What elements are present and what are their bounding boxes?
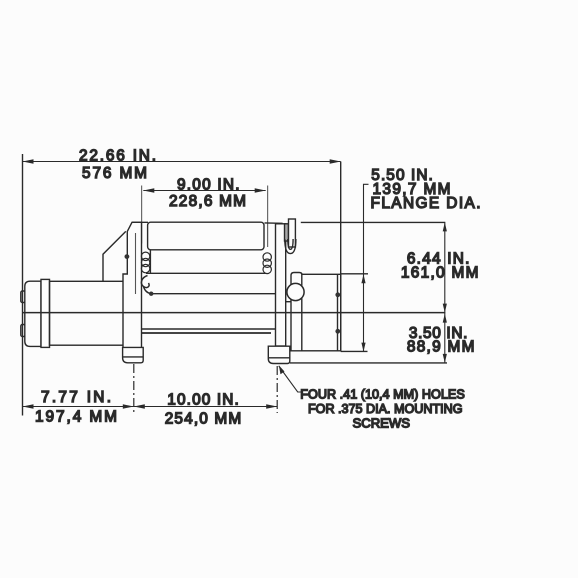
left flange inner edge [149, 250, 151, 273]
svg-text:9.00 IN.: 9.00 IN. [177, 177, 240, 194]
arrowhead up flange top [361, 274, 365, 283]
arrowhead down 3.50 [443, 354, 447, 363]
lower tie bar top line [142, 328, 278, 330]
motor gusset strap [103, 231, 126, 281]
bottom dimension line 7.77 and 10.00 [23, 406, 278, 408]
bolt dot left plate [125, 254, 130, 259]
arrowhead up 3.50 [443, 314, 447, 323]
motor collar ring [41, 279, 50, 347]
arrowhead left 9.00 [143, 188, 154, 192]
svg-text:576 MM: 576 MM [82, 165, 147, 182]
extension line right drum flange (9.00) [267, 186, 269, 248]
dimension line 22.66 IN [23, 161, 341, 163]
gear housing bolt dot upper [335, 292, 340, 297]
arrowhead right 7.77 at left foot centerline [123, 404, 134, 408]
extension line right (22.66) / gear housing right edge [340, 162, 342, 351]
reference line top between bar and right plate [265, 222, 283, 224]
svg-text:FLANGE DIA.: FLANGE DIA. [371, 195, 481, 212]
drum axis centerline [23, 312, 446, 314]
svg-text:SCREWS: SCREWS [353, 416, 411, 431]
flange top reference extension [341, 273, 368, 275]
dimension line 6.44 vertical [444, 222, 446, 312]
extension line left end of winch (22.66 dim) [22, 154, 24, 416]
svg-text:10.00 IN.: 10.00 IN. [167, 392, 239, 409]
svg-text:FOR .375 DIA. MOUNTING: FOR .375 DIA. MOUNTING [308, 401, 463, 416]
left plate bend line [135, 233, 137, 294]
arrowhead left 22.66 [23, 159, 34, 163]
clutch handle bar [289, 219, 296, 247]
clutch column [291, 273, 302, 351]
dimension line 9.00 IN [143, 190, 265, 192]
cable coils left [141, 252, 149, 273]
right foot flange line [268, 357, 290, 359]
svg-text:161,0 MM: 161,0 MM [401, 265, 479, 282]
centerline right foot (dash-dot) [276, 366, 278, 413]
gear housing bolt dot lower [335, 329, 340, 334]
extension line left drum flange (9.00) [141, 186, 143, 244]
top reference line plate to bar [132, 221, 148, 223]
arrowhead right 22.66 [330, 159, 341, 163]
flange bottom reference extension [341, 350, 368, 352]
mounting plane reference line extended right [290, 362, 447, 364]
svg-text:228,6 MM: 228,6 MM [169, 193, 246, 210]
drum barrel lower line with end dot [153, 293, 277, 295]
clutch hatch bar [285, 224, 289, 241]
flange dia dimension line (5.50) [364, 184, 369, 351]
left support plate [123, 222, 142, 348]
motor tie bolt tab lower [21, 325, 25, 337]
svg-text:22.66 IN.: 22.66 IN. [79, 148, 156, 165]
drum flange top line [146, 272, 266, 274]
right mounting foot [268, 346, 290, 363]
arrowhead up 6.44 [443, 222, 447, 231]
gear housing box [302, 274, 341, 351]
arrowhead down 6.44 [443, 304, 447, 313]
cable end dot [149, 292, 153, 296]
lower tie bar bottom line [142, 332, 272, 334]
svg-text:FOUR .41 (10,4 MM) HOLES: FOUR .41 (10,4 MM) HOLES [300, 387, 465, 402]
gear housing inner right edge [337, 274, 339, 351]
top tie bar [148, 222, 264, 250]
right support plate [276, 224, 286, 346]
svg-text:88,9 MM: 88,9 MM [407, 339, 475, 356]
svg-text:7.77 IN.: 7.77 IN. [41, 389, 111, 406]
leader line mounting holes note [279, 366, 302, 392]
left mounting foot [123, 347, 144, 362]
clutch handle loop [285, 239, 296, 254]
arrowhead down flange bottom [361, 343, 365, 352]
dimension line 3.50 vertical [444, 313, 446, 363]
cable end hook squiggle [141, 276, 151, 294]
arrowhead leader at right foot [279, 365, 285, 374]
left foot flange line [123, 356, 144, 358]
arrowhead right 10.00 at right foot centerline [266, 404, 277, 408]
motor end cap [25, 281, 41, 346]
motor body [50, 281, 128, 345]
motor tie bolt tab upper [21, 291, 25, 303]
clutch knob circle [287, 283, 304, 300]
plate to column link line [286, 301, 291, 303]
arrowhead right 9.00 [255, 188, 266, 192]
centerline left foot (dash-dot) [133, 364, 135, 415]
arrowhead left 7.77 [23, 404, 34, 408]
arrowhead left 10.00 at left foot centerline [134, 404, 145, 408]
svg-text:254,0 MM: 254,0 MM [165, 411, 242, 428]
svg-text:197,4 MM: 197,4 MM [35, 409, 117, 426]
reference line top of winch extended right [301, 221, 446, 223]
cable coils right [263, 253, 271, 274]
